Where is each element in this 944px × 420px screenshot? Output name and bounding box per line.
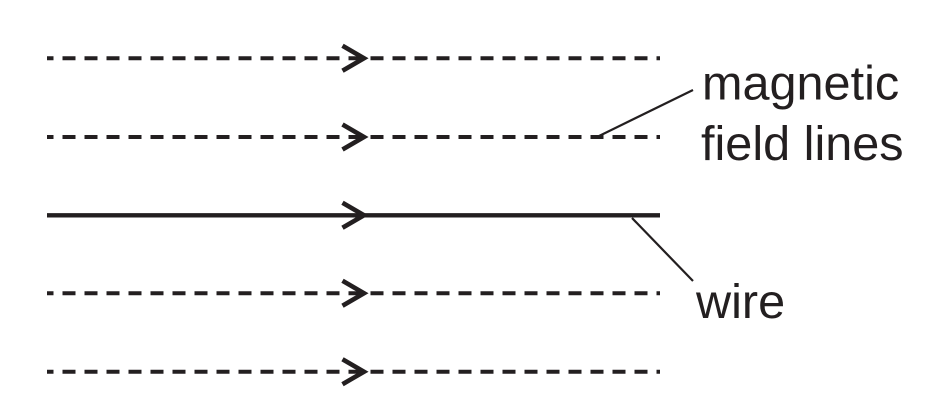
- svg-text:field lines: field lines: [701, 117, 904, 171]
- svg-text:magnetic: magnetic: [702, 56, 899, 110]
- svg-text:wire: wire: [695, 275, 785, 329]
